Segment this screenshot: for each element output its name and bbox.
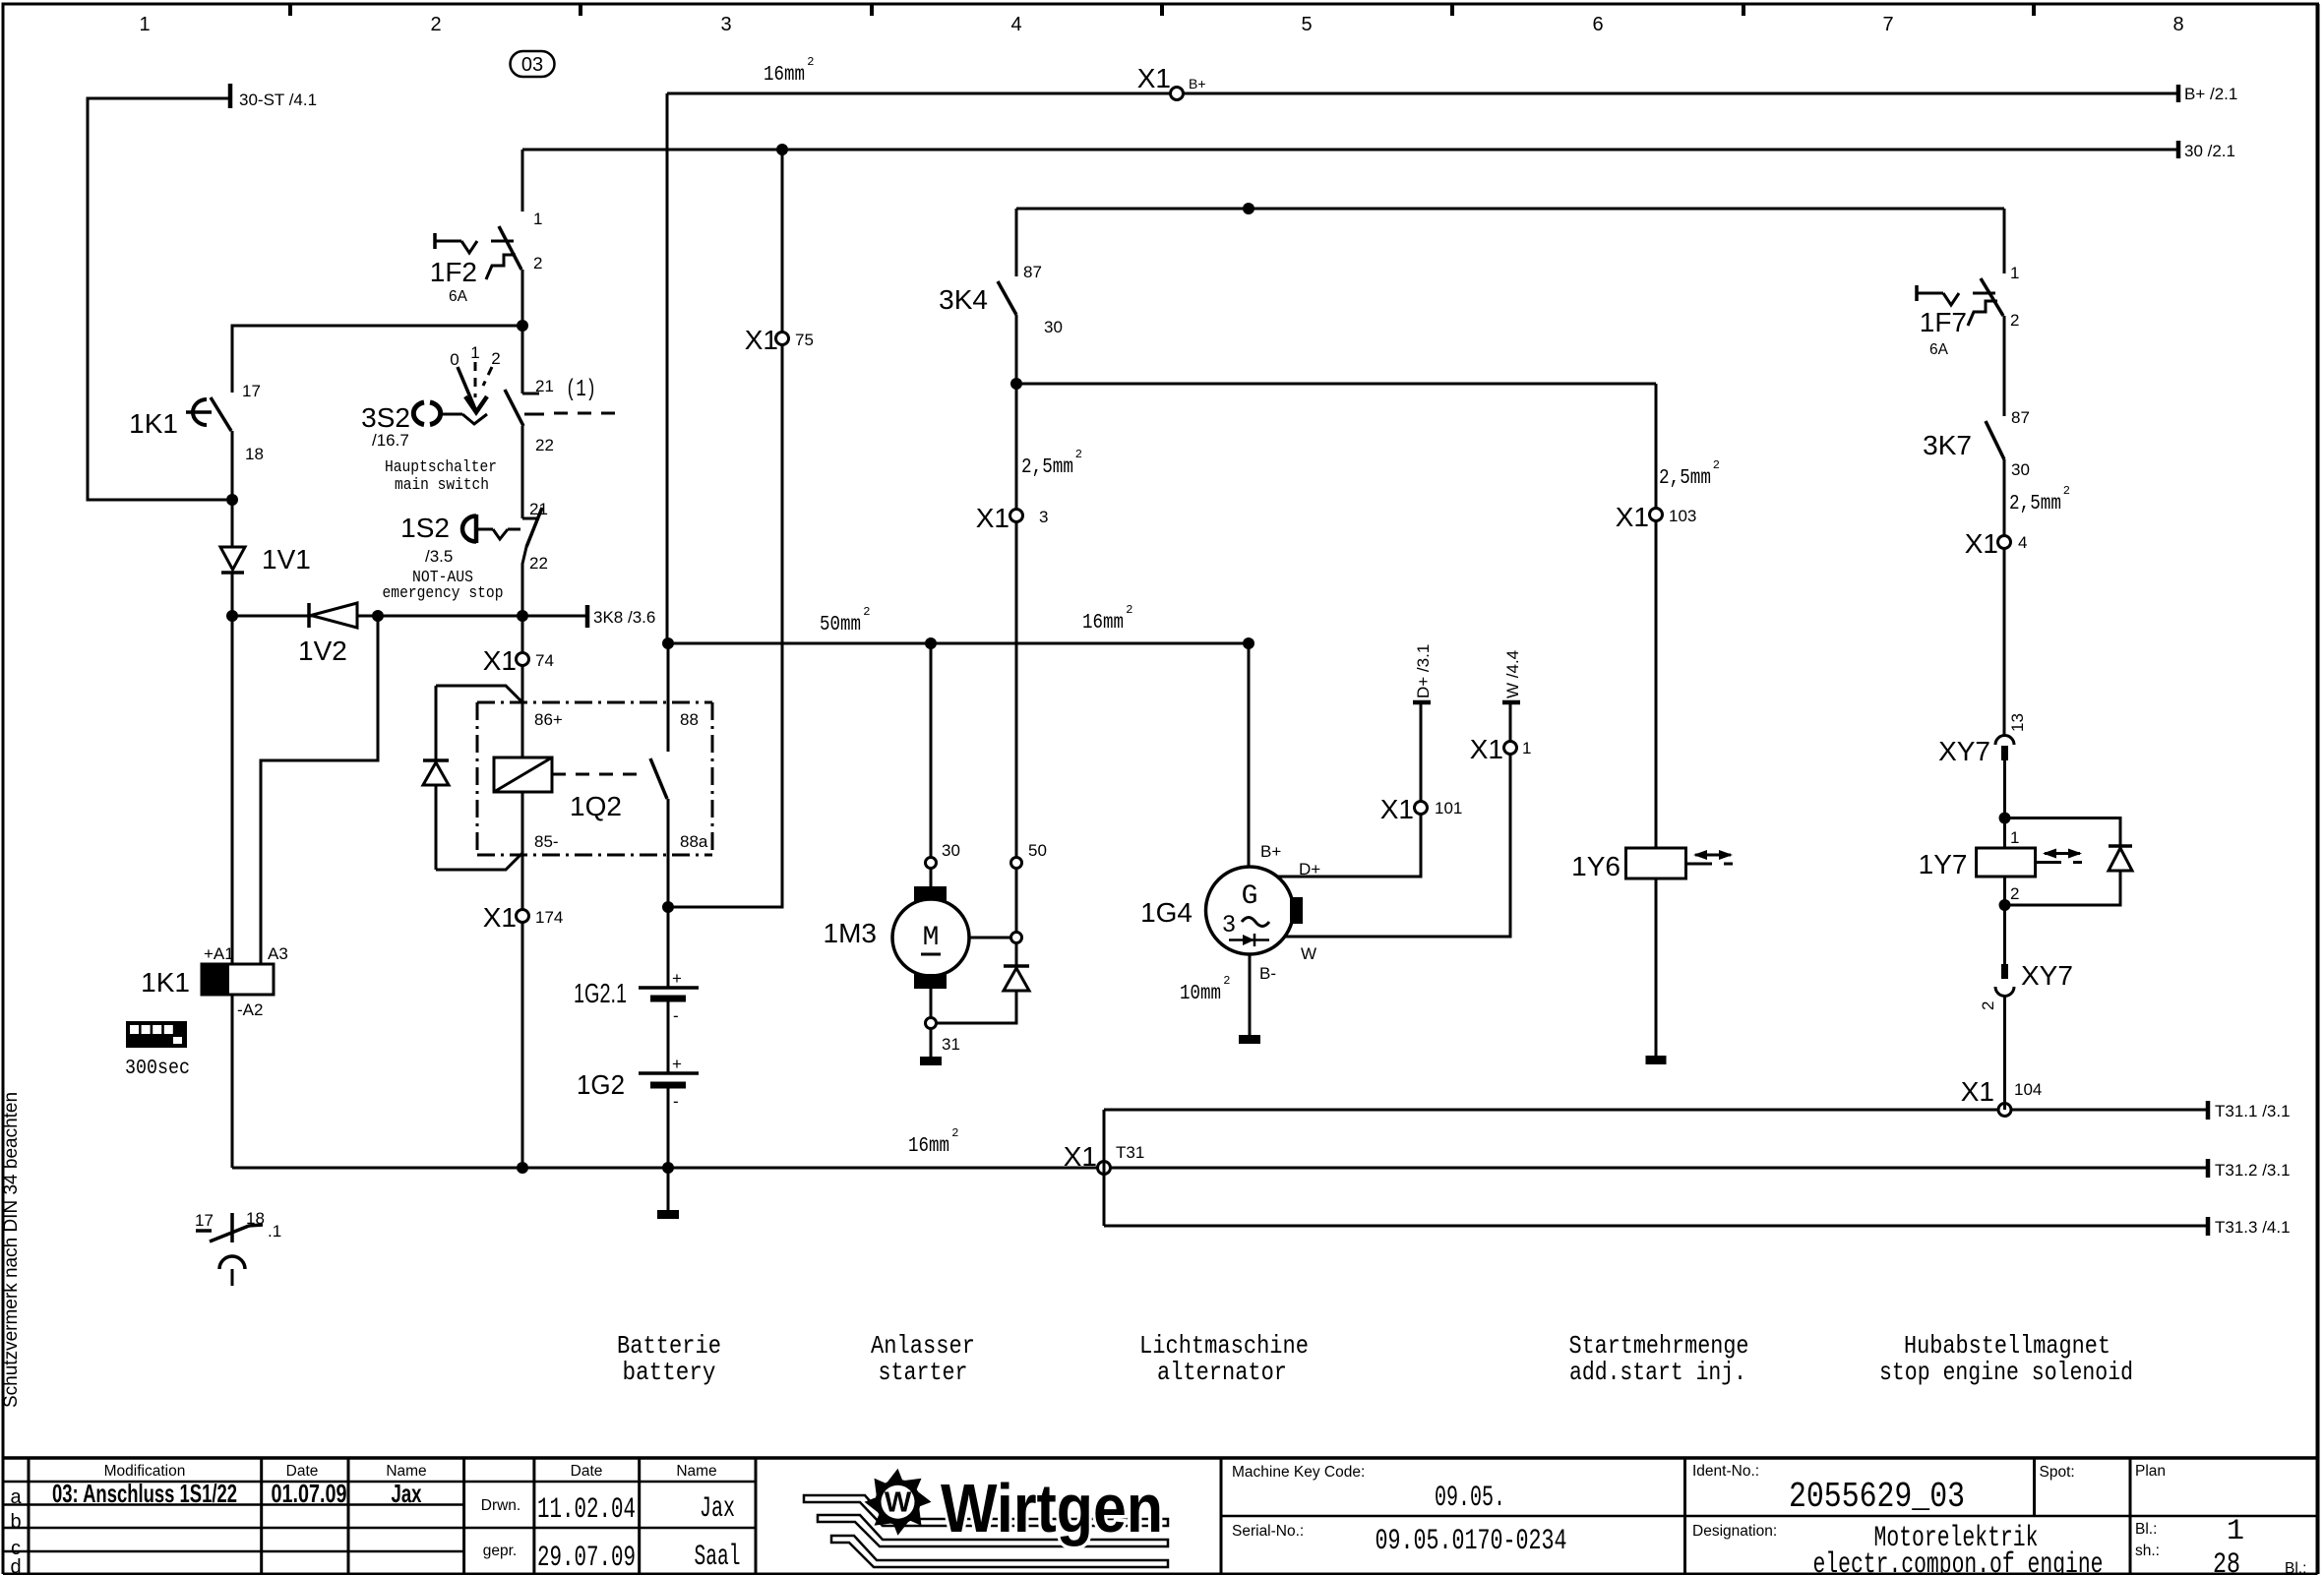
svg-text:6A: 6A <box>449 288 468 305</box>
diode 1V1 <box>231 500 234 547</box>
suppression diode of 1Q2 <box>423 758 449 762</box>
svg-text:Drwn.: Drwn. <box>481 1497 520 1514</box>
svg-text:1F2: 1F2 <box>430 257 477 287</box>
terminal 31 <box>926 1018 937 1029</box>
switch 1S2 emergency stop <box>522 517 539 520</box>
ground 1Y6 <box>1655 878 1658 1056</box>
svg-text:6A: 6A <box>1929 341 1949 358</box>
svg-text:6: 6 <box>1592 14 1603 35</box>
svg-text:+: + <box>672 969 682 988</box>
svg-text:1K1: 1K1 <box>141 967 190 998</box>
border frame top <box>2 3 2320 6</box>
wire line B to X1:74 <box>781 150 784 333</box>
svg-text:X1: X1 <box>1064 1141 1097 1172</box>
svg-text:Name: Name <box>676 1463 716 1480</box>
svg-text:30: 30 <box>942 841 960 860</box>
svg-text:Anlasser: Anlasser <box>871 1331 975 1361</box>
svg-text:2: 2 <box>491 349 500 368</box>
flag T31.3 /4.1 <box>2206 1217 2211 1236</box>
svg-text:B+ /2.1: B+ /2.1 <box>2184 85 2237 103</box>
svg-text:2055629_03: 2055629_03 <box>1789 1477 1965 1517</box>
ground starter <box>930 1029 933 1057</box>
flag 3K8 /3.6 <box>585 605 590 628</box>
svg-text:Startmehrmenge: Startmehrmenge <box>1569 1331 1749 1361</box>
svg-text:Bl.:: Bl.: <box>2285 1560 2306 1575</box>
wire coil feed <box>231 616 234 964</box>
svg-text:22: 22 <box>529 554 548 573</box>
terminal X1:174 <box>517 910 529 923</box>
svg-text:Lichtmaschine: Lichtmaschine <box>1139 1331 1309 1361</box>
svg-text:X1: X1 <box>745 325 778 355</box>
svg-text:a: a <box>10 1486 22 1508</box>
terminal X1:4 <box>1998 536 2011 549</box>
svg-text:5: 5 <box>1301 14 1312 35</box>
svg-text:1G2: 1G2 <box>577 1069 625 1100</box>
svg-text:Serial-No.:: Serial-No.: <box>1232 1523 1304 1540</box>
svg-text:11.02.04: 11.02.04 <box>537 1493 636 1527</box>
svg-text:3K4: 3K4 <box>939 284 988 315</box>
flag W /4.4 <box>1502 700 1520 705</box>
svg-text:28: 28 <box>2213 1548 2240 1575</box>
switch 3S2 main switch <box>521 326 524 394</box>
flag T31.2 /3.1 <box>2206 1159 2211 1178</box>
svg-text:21: 21 <box>535 377 554 395</box>
terminal 50 <box>1011 858 1022 869</box>
svg-text:2: 2 <box>430 14 441 35</box>
wire 1F2 to node <box>521 270 524 326</box>
svg-text:2: 2 <box>863 605 870 619</box>
svg-text:Modification: Modification <box>104 1463 186 1480</box>
svg-text:87: 87 <box>1023 263 1042 281</box>
svg-text:1V2: 1V2 <box>298 636 347 666</box>
alternator 1G4 <box>1206 867 1294 954</box>
svg-text:gepr.: gepr. <box>483 1543 517 1559</box>
svg-text:T31.1 /3.1: T31.1 /3.1 <box>2215 1102 2291 1121</box>
svg-text:stop engine solenoid: stop engine solenoid <box>1879 1358 2133 1387</box>
brush pad 1G4 <box>1290 897 1303 924</box>
svg-text:d: d <box>10 1556 21 1575</box>
wire 1F2 top lead <box>521 150 524 212</box>
terminal X1:101 <box>1415 802 1428 815</box>
solenoid 1Y7 <box>1977 848 2036 877</box>
wire T31 riser <box>1103 1110 1106 1226</box>
svg-text:1: 1 <box>2227 1515 2244 1548</box>
svg-text:1K1: 1K1 <box>129 408 178 439</box>
svg-text:09.05.: 09.05. <box>1435 1482 1505 1515</box>
svg-text:2: 2 <box>951 1126 958 1140</box>
junction on line B <box>776 144 788 155</box>
wire 3S2-22 to 1S2-21 <box>521 426 524 518</box>
coil 1Q2 <box>494 757 552 792</box>
svg-text:1: 1 <box>2010 828 2019 847</box>
svg-text:W: W <box>1301 944 1316 963</box>
terminal X1:75 <box>776 333 789 345</box>
wire X1:74 to 1Q2 coil 86+ <box>521 665 524 757</box>
node (1033,390) <box>1010 378 1022 390</box>
svg-text:3: 3 <box>1222 911 1235 938</box>
node (236,626) <box>226 610 238 622</box>
relay 1Q2 outline <box>436 686 522 702</box>
breaker 1F7 <box>1981 278 2003 316</box>
svg-text:Hauptschalter: Hauptschalter <box>385 458 497 477</box>
linkage 1Q2 <box>552 773 644 776</box>
svg-text:1: 1 <box>2010 264 2019 282</box>
svg-text:Date: Date <box>571 1463 603 1480</box>
svg-text:XY7: XY7 <box>1938 736 1990 766</box>
svg-text:/16.7: /16.7 <box>372 431 409 450</box>
svg-text:3K7: 3K7 <box>1923 430 1972 460</box>
svg-text:Bl.:: Bl.: <box>2135 1521 2157 1538</box>
svg-text:22: 22 <box>535 436 554 454</box>
svg-text:30-ST /4.1: 30-ST /4.1 <box>239 91 317 109</box>
svg-text:X1: X1 <box>1616 502 1649 532</box>
svg-text:1Q2: 1Q2 <box>570 791 622 821</box>
title block frame <box>3 1456 2318 1460</box>
terminal solenoid <box>1011 933 1022 943</box>
svg-text:/3.5: /3.5 <box>425 547 453 566</box>
wire bus to alternator B+ <box>1248 643 1251 867</box>
wire to 1Y6 <box>1655 384 1658 509</box>
connector XY7 pin 13 <box>1995 736 2014 746</box>
svg-text:T31.3 /4.1: T31.3 /4.1 <box>2215 1218 2291 1237</box>
svg-text:main switch: main switch <box>395 476 489 495</box>
svg-text:3S2: 3S2 <box>361 402 410 433</box>
svg-text:1G2.1: 1G2.1 <box>574 978 627 1008</box>
svg-text:16mm: 16mm <box>908 1135 949 1158</box>
svg-text:-: - <box>673 1006 679 1025</box>
diode starter <box>1015 943 1018 965</box>
svg-text:88a: 88a <box>680 832 708 851</box>
wire bus 30 (line B y=152) <box>522 149 2178 151</box>
svg-text:D+: D+ <box>1299 860 1320 878</box>
wire 30-ST to 1K1 <box>88 98 228 500</box>
svg-text:87: 87 <box>2011 408 2030 427</box>
Wirtgen gear emblem <box>865 1469 932 1536</box>
wire D+ <box>1277 702 1421 877</box>
wire coil vertical <box>2003 818 2006 849</box>
border frame left <box>2 4 5 1574</box>
wire X1:174 to bottom bus <box>521 922 524 1168</box>
terminal X1:103 <box>1650 509 1663 521</box>
wire main bus y=654 <box>668 642 1249 645</box>
flag D+ /3.1 <box>1413 700 1431 705</box>
wire X1:75 down to battery node <box>668 344 782 907</box>
wire X1:4 to XY7 <box>2003 548 2006 735</box>
svg-text:17: 17 <box>195 1211 214 1230</box>
svg-text:50mm: 50mm <box>820 614 861 636</box>
svg-text:X1: X1 <box>1470 734 1503 764</box>
svg-text:+A1: +A1 <box>204 944 234 963</box>
svg-text:2: 2 <box>1075 448 1082 461</box>
svg-text:16mm: 16mm <box>764 64 805 87</box>
solenoid 1Y6 <box>1626 848 1686 878</box>
page tag 03 oval <box>511 51 555 77</box>
terminal X1:3 <box>1010 510 1023 522</box>
svg-text:-A2: -A2 <box>237 1000 263 1019</box>
svg-text:2,5mm: 2,5mm <box>1659 467 1711 490</box>
wire line C y=212 <box>1016 208 2004 211</box>
svg-text:M: M <box>923 923 940 953</box>
svg-text:1Y6: 1Y6 <box>1571 851 1621 881</box>
svg-text:X1: X1 <box>483 902 517 933</box>
svg-text:Spot:: Spot: <box>2040 1464 2075 1481</box>
wire T31.1 <box>1104 1109 2208 1112</box>
svg-text:alternator: alternator <box>1157 1358 1287 1387</box>
svg-text:1S2: 1S2 <box>400 513 450 543</box>
svg-text:2: 2 <box>2010 884 2019 903</box>
svg-text:Plan: Plan <box>2135 1463 2166 1480</box>
svg-text:X1: X1 <box>1961 1076 1994 1107</box>
svg-text:2: 2 <box>1979 1001 1997 1010</box>
svg-text:electr.compon.of engine: electr.compon.of engine <box>1813 1548 2104 1575</box>
svg-text:2: 2 <box>2063 484 2070 498</box>
wire starter 50 branch <box>1015 521 1018 857</box>
border frame right <box>2316 4 2320 1574</box>
wire 3K8 line y=626 <box>232 615 587 618</box>
terminal X1:104 <box>1998 1104 2011 1117</box>
svg-text:74: 74 <box>535 651 554 670</box>
node at (531,331) <box>517 320 528 332</box>
svg-text:86+: 86+ <box>534 710 563 729</box>
terminal X1:74 <box>517 653 529 666</box>
svg-text:31: 31 <box>942 1035 960 1054</box>
Wirtgen logo swoosh stripes <box>804 1495 1168 1526</box>
node (531,626) <box>517 610 528 622</box>
svg-text:G: G <box>1242 881 1258 912</box>
wire bus to starter 30 <box>930 643 933 857</box>
flag 30 /2.1 <box>2176 141 2181 158</box>
flag 30-ST /4.1 <box>228 84 233 108</box>
node 1Y7 bottom <box>1999 899 2011 911</box>
svg-text:01.07.09: 01.07.09 <box>272 1479 347 1508</box>
svg-text:3: 3 <box>720 14 731 35</box>
wire A3 branch <box>261 616 378 964</box>
svg-text:17: 17 <box>242 382 261 400</box>
starter motor 1M3 <box>930 868 933 886</box>
svg-text:18: 18 <box>245 445 264 463</box>
svg-text:W: W <box>885 1487 912 1519</box>
svg-text:B-: B- <box>1259 964 1276 983</box>
svg-text:.1: .1 <box>268 1222 281 1241</box>
wire line C to 3K4 <box>1015 209 1018 276</box>
svg-text:Schutzvermerk nach DIN 34 beac: Schutzvermerk nach DIN 34 beachten <box>1 1092 22 1408</box>
terminal X1 B+ <box>1171 88 1184 100</box>
svg-text:B+: B+ <box>1260 842 1281 861</box>
svg-text:XY7: XY7 <box>2021 960 2073 991</box>
svg-text:1: 1 <box>139 14 150 35</box>
svg-text:30 /2.1: 30 /2.1 <box>2184 142 2235 160</box>
wire node to 1K1 contact <box>232 326 522 393</box>
column ticks top <box>288 4 292 16</box>
svg-text:Jax: Jax <box>392 1479 422 1508</box>
svg-text:(1): (1) <box>566 377 596 403</box>
wire bus B+ (line A y=95) <box>667 92 2178 95</box>
svg-text:starter: starter <box>879 1358 968 1387</box>
svg-text:174: 174 <box>535 908 563 927</box>
svg-text:4: 4 <box>2018 533 2027 552</box>
svg-text:30: 30 <box>1044 318 1063 336</box>
wire T31.2 <box>1111 1167 2208 1170</box>
diode 1V2 (on 3K8 line) <box>307 603 311 628</box>
svg-text:2: 2 <box>1223 974 1230 988</box>
svg-text:03: Anschluss 1S1/22: 03: Anschluss 1S1/22 <box>52 1479 237 1508</box>
svg-text:b: b <box>10 1511 21 1533</box>
svg-text:Wirtgen: Wirtgen <box>941 1470 1163 1546</box>
svg-text:104: 104 <box>2014 1080 2042 1099</box>
svg-text:2,5mm: 2,5mm <box>2009 493 2061 515</box>
svg-text:10mm: 10mm <box>1180 983 1221 1005</box>
svg-text:battery: battery <box>623 1358 716 1387</box>
svg-text:2: 2 <box>807 55 814 69</box>
terminal X1 T31 <box>1098 1162 1111 1175</box>
wire T31.3 <box>1104 1225 2208 1228</box>
svg-text:X1: X1 <box>1137 63 1171 93</box>
svg-text:Date: Date <box>286 1463 319 1480</box>
node (236,508) <box>226 494 238 506</box>
svg-text:Jax: Jax <box>700 1492 735 1526</box>
ground battery <box>667 1168 670 1210</box>
svg-text:1Y7: 1Y7 <box>1919 849 1968 879</box>
wire W <box>1285 702 1510 937</box>
svg-text:13: 13 <box>2008 713 2027 732</box>
small diode glyph inside 1G4 <box>1229 939 1269 941</box>
terminal 30 <box>926 858 937 869</box>
flag B+ /2.1 <box>2176 85 2181 102</box>
svg-text:2: 2 <box>1126 603 1132 617</box>
svg-text:0: 0 <box>450 350 459 369</box>
node 1Y7 top <box>1999 813 2011 824</box>
svg-text:1F7: 1F7 <box>1920 307 1967 337</box>
svg-text:2: 2 <box>1713 458 1720 472</box>
1S2 mushroom actuator <box>462 516 476 542</box>
node battery bottom <box>662 1162 674 1174</box>
svg-text:30: 30 <box>2011 460 2030 479</box>
svg-text:03: 03 <box>521 54 543 76</box>
svg-text:-: - <box>673 1092 679 1111</box>
junction line C x=1269 <box>1243 203 1254 214</box>
svg-text:+: + <box>672 1055 682 1073</box>
svg-text:X1: X1 <box>1380 794 1414 824</box>
svg-text:Batterie: Batterie <box>617 1331 721 1361</box>
svg-text:1: 1 <box>1522 739 1531 757</box>
svg-text:1G4: 1G4 <box>1140 897 1193 928</box>
svg-text:8: 8 <box>2172 14 2183 35</box>
timer block 300sec <box>126 1021 187 1048</box>
svg-text:T31: T31 <box>1116 1143 1144 1162</box>
svg-text:X1: X1 <box>976 503 1009 533</box>
terminal X1:1 <box>1504 742 1517 755</box>
svg-text:88: 88 <box>680 710 699 729</box>
svg-text:75: 75 <box>795 331 814 349</box>
svg-text:Hubabstellmagnet: Hubabstellmagnet <box>1904 1331 2110 1361</box>
svg-text:1M3: 1M3 <box>824 918 877 948</box>
flag T31.1 /3.1 <box>2206 1101 2211 1120</box>
battery 1G2.1 <box>639 986 699 990</box>
battery 1G2 <box>639 1071 699 1075</box>
svg-text:1V1: 1V1 <box>262 544 311 575</box>
svg-text:T31.2 /3.1: T31.2 /3.1 <box>2215 1161 2291 1180</box>
svg-text:103: 103 <box>1669 507 1696 525</box>
svg-text:X1: X1 <box>1965 528 1998 559</box>
contact 3K7 <box>1986 421 2004 459</box>
svg-text:29.07.09: 29.07.09 <box>537 1542 636 1575</box>
svg-text:50: 50 <box>1028 841 1047 860</box>
svg-text:X1: X1 <box>483 645 517 676</box>
svg-text:Designation:: Designation: <box>1692 1523 1777 1540</box>
wire 3K8-line to X1:74 <box>521 616 524 653</box>
diode 1Y7 loop <box>2005 818 2121 846</box>
1Q2 enclosure dash-dot box <box>477 701 712 704</box>
svg-text:B+: B+ <box>1189 76 1206 91</box>
wire bottom bus y=1187 <box>232 1167 1097 1170</box>
svg-text:101: 101 <box>1435 799 1462 818</box>
svg-text:1: 1 <box>533 210 542 228</box>
svg-text:300sec: 300sec <box>125 1058 190 1080</box>
svg-text:2: 2 <box>533 254 542 273</box>
wire line C to 1F7 <box>2003 209 2006 273</box>
svg-text:Ident-No.:: Ident-No.: <box>1692 1463 1759 1480</box>
svg-text:Machine Key Code:: Machine Key Code: <box>1232 1464 1365 1481</box>
connector XY7 pin 2 <box>2003 905 2006 964</box>
svg-text:Name: Name <box>386 1463 426 1480</box>
wire B+ riser x=678 <box>666 93 669 643</box>
svg-text:3: 3 <box>1039 508 1048 526</box>
svg-text:3K8 /3.6: 3K8 /3.6 <box>593 608 655 627</box>
svg-text:2,5mm: 2,5mm <box>1021 456 1073 479</box>
svg-text:85-: 85- <box>534 832 559 851</box>
wire coil to bottom bus <box>231 995 234 1168</box>
svg-text:sh.:: sh.: <box>2135 1543 2160 1559</box>
3S2 manual actuator <box>413 402 424 425</box>
svg-text:2: 2 <box>2010 311 2019 330</box>
svg-text:A3: A3 <box>268 944 288 963</box>
svg-text:W /4.4: W /4.4 <box>1503 650 1522 698</box>
svg-text:1: 1 <box>470 343 479 362</box>
svg-text:21: 21 <box>529 500 548 518</box>
svg-text:emergency stop: emergency stop <box>383 584 504 603</box>
svg-text:09.05.0170-0234: 09.05.0170-0234 <box>1376 1525 1567 1558</box>
svg-text:4: 4 <box>1010 14 1021 35</box>
wire 3K4 to X1:3 <box>1015 384 1018 510</box>
svg-text:7: 7 <box>1882 14 1893 35</box>
node (384,626) <box>372 610 384 622</box>
svg-text:add.start inj.: add.start inj. <box>1569 1358 1746 1387</box>
node battery top <box>662 901 674 913</box>
svg-text:D+ /3.1: D+ /3.1 <box>1414 644 1433 698</box>
svg-text:16mm: 16mm <box>1082 612 1124 635</box>
wire y=390 to 1Y6 column <box>1016 383 1656 386</box>
svg-text:Saal: Saal <box>695 1541 741 1574</box>
wire 85- to X1:174 <box>521 792 524 910</box>
contact 3K4 <box>998 281 1016 315</box>
